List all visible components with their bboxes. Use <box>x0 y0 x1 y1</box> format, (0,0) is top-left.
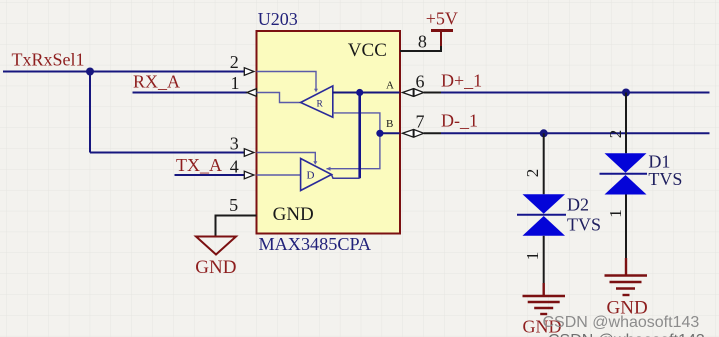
chip U203 body <box>257 31 401 234</box>
TVS diode D2 <box>523 194 566 214</box>
internal junction dot A <box>356 89 363 96</box>
earth ground D1 <box>605 258 648 295</box>
svg-text:D: D <box>307 170 315 182</box>
earth ground D2 <box>523 283 566 314</box>
svg-text:CSDN @whaosoft143: CSDN @whaosoft143 <box>543 314 700 331</box>
junction dot D+ <box>622 89 630 97</box>
internal pin4 input line <box>257 174 301 176</box>
thick vertical A to D output <box>358 93 361 179</box>
pin 2 arrow <box>244 68 254 76</box>
svg-text:TVS: TVS <box>648 169 682 189</box>
svg-text:GND: GND <box>273 204 314 225</box>
internal B line from R <box>327 113 380 169</box>
svg-text:R: R <box>317 99 324 109</box>
wire D+ to D1 <box>625 93 627 154</box>
svg-text:1: 1 <box>231 73 240 93</box>
internal pin1 output line <box>257 93 301 103</box>
+5V power bar <box>440 31 442 47</box>
svg-text:6: 6 <box>416 72 425 92</box>
svg-text:5: 5 <box>229 195 238 215</box>
ground triangle pin5 <box>196 237 236 255</box>
svg-text:2: 2 <box>523 169 542 178</box>
svg-text:GND: GND <box>195 257 236 278</box>
internal A line from R to pin6 <box>333 92 400 94</box>
internal pin2 enable line <box>257 72 317 91</box>
svg-text:3: 3 <box>230 134 239 154</box>
junction dot D- <box>540 129 548 137</box>
wire to pin 3 <box>90 152 245 154</box>
svg-text:1: 1 <box>523 252 542 261</box>
svg-text:TxRxSel1: TxRxSel1 <box>12 49 85 69</box>
svg-text:B: B <box>386 118 393 130</box>
svg-text:+5V: +5V <box>426 8 458 28</box>
wire D2 to ground <box>543 236 545 283</box>
svg-text:D+_1: D+_1 <box>441 71 482 91</box>
pin 1 arrow <box>247 89 257 97</box>
svg-text:A: A <box>386 80 394 92</box>
TVS diode D1 <box>605 153 647 173</box>
svg-text:TX_A: TX_A <box>176 155 222 175</box>
svg-text:U203: U203 <box>258 9 298 29</box>
wire RX_A to pin 1 <box>133 92 248 94</box>
internal pin7 line <box>380 132 400 134</box>
pin 4 arrow <box>244 171 254 179</box>
pin 8 wire <box>400 45 441 51</box>
pin 3 arrow <box>244 149 254 157</box>
driver D triangle <box>301 159 332 191</box>
svg-text:4: 4 <box>230 157 239 177</box>
svg-text:CSDN @whaosoft143: CSDN @whaosoft143 <box>548 332 705 337</box>
wire junction to pin 2 <box>90 71 245 73</box>
wire D- net <box>424 132 441 134</box>
internal pin3 enable line <box>257 153 316 164</box>
svg-text:1: 1 <box>606 209 625 218</box>
svg-text:D-_1: D-_1 <box>441 111 478 131</box>
svg-text:MAX3485CPA: MAX3485CPA <box>259 234 372 254</box>
wire TxRxSel1 horizontal to junction <box>3 71 90 73</box>
svg-text:2: 2 <box>230 52 239 72</box>
wire D+ net <box>424 92 441 94</box>
wire D- to D2 <box>543 133 545 194</box>
svg-text:8: 8 <box>418 32 427 52</box>
svg-text:VCC: VCC <box>348 40 387 61</box>
svg-text:2: 2 <box>606 130 625 139</box>
pin 5 wire <box>216 216 257 237</box>
pin 7 bidir arrow <box>403 129 424 137</box>
junction dot TxRxSel1 <box>86 68 94 76</box>
pin 6 bidir arrow <box>403 89 424 97</box>
internal junction dot B <box>376 130 383 137</box>
wire TX_A to pin 4 <box>175 174 245 176</box>
wire D1 to ground <box>625 195 627 259</box>
wire junction vertical down <box>89 72 91 153</box>
svg-text:D2: D2 <box>567 194 589 214</box>
svg-text:7: 7 <box>416 112 425 132</box>
receiver R triangle <box>301 86 333 117</box>
svg-text:TVS: TVS <box>567 215 601 235</box>
svg-text:RX_A: RX_A <box>133 72 180 92</box>
